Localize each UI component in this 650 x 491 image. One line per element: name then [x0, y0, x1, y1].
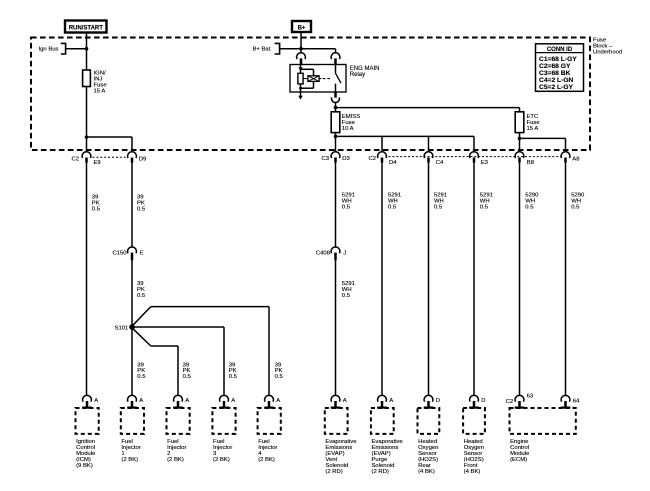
svg-text:0.5: 0.5 [92, 206, 101, 212]
svg-text:15 A: 15 A [94, 89, 106, 95]
svg-text:(2 BK): (2 BK) [258, 457, 275, 463]
svg-text:Fuse: Fuse [527, 120, 541, 126]
svg-text:0.5: 0.5 [137, 206, 146, 212]
svg-text:A: A [343, 398, 347, 404]
svg-text:D: D [481, 398, 485, 404]
svg-text:63: 63 [527, 393, 534, 399]
svg-text:(4 BK): (4 BK) [418, 469, 435, 475]
svg-text:C2: C2 [506, 399, 514, 405]
svg-text:0.5: 0.5 [434, 204, 443, 210]
svg-text:0.5: 0.5 [275, 374, 284, 380]
svg-text:D4: D4 [389, 160, 397, 166]
svg-text:B8: B8 [527, 160, 535, 166]
svg-text:ETC: ETC [527, 114, 540, 120]
svg-text:0.5: 0.5 [342, 293, 351, 299]
svg-text:Ign Bus: Ign Bus [39, 46, 59, 52]
svg-text:A: A [185, 398, 189, 404]
svg-text:B+ Bat: B+ Bat [253, 46, 271, 52]
svg-text:E9: E9 [94, 160, 101, 166]
svg-text:D9: D9 [139, 156, 147, 162]
svg-text:D3: D3 [342, 156, 350, 162]
svg-text:0.5: 0.5 [183, 374, 192, 380]
svg-text:0.5: 0.5 [137, 293, 146, 299]
svg-text:0.5: 0.5 [388, 204, 397, 210]
svg-text:D: D [436, 398, 440, 404]
svg-text:(ECM): (ECM) [510, 457, 527, 463]
svg-text:EMISS: EMISS [342, 114, 360, 120]
svg-text:B+: B+ [298, 26, 306, 32]
svg-text:C408: C408 [316, 251, 331, 257]
svg-text:E: E [140, 251, 144, 257]
svg-text:J: J [343, 251, 346, 257]
svg-text:10 A: 10 A [342, 126, 354, 132]
svg-text:C2: C2 [368, 156, 376, 162]
svg-text:(4 BK): (4 BK) [464, 469, 481, 475]
svg-text:A: A [231, 398, 235, 404]
svg-text:(2 BK): (2 BK) [121, 457, 138, 463]
svg-text:0.5: 0.5 [480, 204, 489, 210]
svg-text:A8: A8 [572, 157, 580, 163]
svg-text:C150: C150 [113, 251, 128, 257]
svg-text:CONN ID: CONN ID [547, 47, 573, 53]
svg-text:ENG MAIN: ENG MAIN [350, 66, 380, 72]
svg-text:A: A [276, 398, 280, 404]
svg-text:S101: S101 [115, 326, 129, 332]
svg-text:A: A [94, 398, 98, 404]
svg-text:15 A: 15 A [527, 126, 539, 132]
svg-text:(2 RD): (2 RD) [372, 469, 389, 475]
svg-text:(2 BK): (2 BK) [213, 457, 230, 463]
svg-text:C5=2 L-GY: C5=2 L-GY [539, 84, 574, 91]
svg-text:A: A [389, 398, 393, 404]
svg-text:0.5: 0.5 [525, 204, 534, 210]
svg-text:A: A [139, 398, 143, 404]
svg-text:C4: C4 [436, 160, 444, 166]
svg-text:64: 64 [573, 399, 580, 405]
svg-text:0.5: 0.5 [571, 204, 580, 210]
svg-text:0.5: 0.5 [137, 374, 146, 380]
svg-text:0.5: 0.5 [229, 374, 238, 380]
svg-text:(2 BK): (2 BK) [167, 457, 184, 463]
svg-text:Underhood: Underhood [593, 49, 622, 55]
svg-text:C3: C3 [321, 156, 329, 162]
svg-text:(9 BK): (9 BK) [76, 463, 93, 469]
svg-text:E3: E3 [481, 160, 489, 166]
svg-text:Relay: Relay [350, 72, 365, 78]
svg-text:Fuse: Fuse [342, 120, 356, 126]
svg-text:C2: C2 [71, 156, 79, 162]
svg-text:0.5: 0.5 [342, 204, 351, 210]
svg-text:(2 RD): (2 RD) [325, 469, 342, 475]
svg-text:RUN/START: RUN/START [69, 26, 104, 32]
